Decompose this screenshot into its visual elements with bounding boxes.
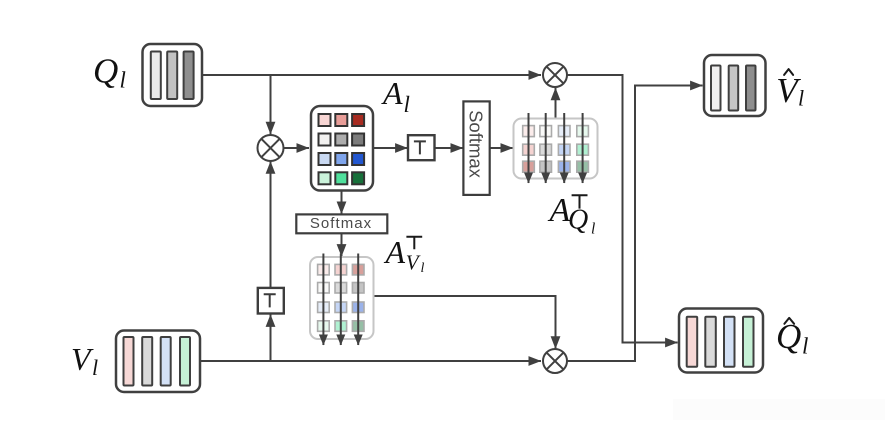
svg-text:Q: Q <box>776 317 801 356</box>
wire X3 output right up right into box Vhat <box>567 86 703 362</box>
svg-text:Q: Q <box>568 205 588 236</box>
column arrows A_Q <box>528 113 530 183</box>
label Q_l <box>93 52 126 93</box>
wire branch Q_l down into X1 top <box>270 75 272 134</box>
wire A_l right to T1 box <box>373 147 408 149</box>
svg-text:A: A <box>381 75 403 111</box>
box Softmax vertical <box>463 101 489 194</box>
label V_l <box>71 341 98 380</box>
label A_l <box>381 75 410 117</box>
svg-text:Q: Q <box>93 52 118 91</box>
wire T1 to vertical Softmax box <box>435 147 464 149</box>
wire matrix A_Q top up into X2 bottom <box>555 88 557 119</box>
svg-text:l: l <box>421 261 425 276</box>
svg-text:Softmax: Softmax <box>310 215 372 232</box>
multiply node X3 <box>543 349 567 373</box>
label A_V transpose <box>384 234 425 276</box>
wire V_l to multiply node X3 (horizontal bottom) <box>200 360 541 362</box>
svg-text:l: l <box>802 334 808 359</box>
wire A_l bottom down to horizontal Softmax <box>341 191 343 215</box>
box T1 <box>408 135 435 160</box>
box V_l <box>116 331 200 393</box>
label Vhat_l <box>776 69 804 110</box>
wire T2 top up into X1 bottom <box>270 161 272 288</box>
label Qhat_l <box>776 317 808 359</box>
multiply node X2 <box>543 63 567 87</box>
svg-text:l: l <box>591 221 595 238</box>
matrix A_V faded <box>310 254 374 346</box>
watermark light rectangle bottom right <box>673 399 885 420</box>
svg-text:A: A <box>384 234 406 270</box>
column arrows A_V <box>322 254 324 346</box>
svg-text:l: l <box>404 92 410 117</box>
matrix A_l <box>311 106 373 191</box>
svg-text:l: l <box>120 68 126 93</box>
wire branch V_l up into T2 bottom <box>270 314 272 361</box>
multiply node X1 <box>258 135 284 161</box>
label A_Q transpose <box>548 192 596 238</box>
matrix A_Q faded <box>514 113 598 183</box>
svg-text:V: V <box>406 251 421 275</box>
wire vertical Softmax to matrix A_Q <box>490 147 513 149</box>
box Q_l <box>143 44 203 106</box>
svg-text:Softmax: Softmax <box>466 110 487 179</box>
wire matrix A_V right then down into X3 top <box>373 296 555 349</box>
wire Q_l to multiply node X2 (horizontal top) <box>202 74 541 76</box>
wire X2 output right down right into box Qhat <box>567 75 678 343</box>
box Qhat <box>679 309 763 373</box>
svg-text:l: l <box>92 355 98 380</box>
box Softmax horizontal <box>296 214 387 233</box>
wire X1 output into matrix A_l <box>284 147 310 149</box>
wire horizontal Softmax down into matrix A_V <box>341 233 343 256</box>
box Vhat <box>704 55 766 116</box>
box T2 <box>258 288 284 314</box>
svg-text:l: l <box>798 86 804 111</box>
